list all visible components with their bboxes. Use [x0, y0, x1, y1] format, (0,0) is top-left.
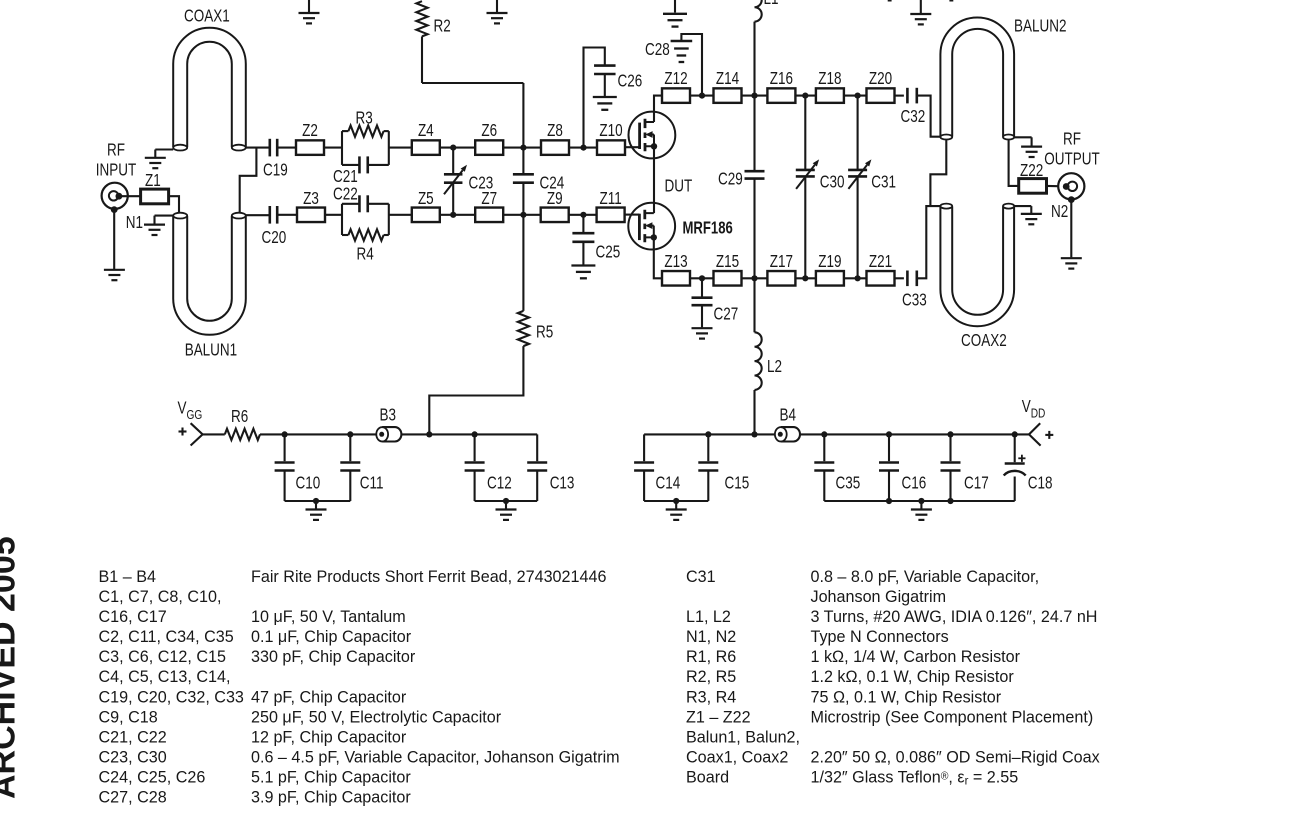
svg-text:R3, R4: R3, R4	[686, 687, 736, 706]
ground at BALUN1 left tube (N1 shield)	[144, 216, 173, 235]
node label DUT	[665, 177, 693, 196]
capacitor C28 and tap wire	[645, 34, 702, 96]
microstrip Z8	[541, 121, 569, 155]
resistor R3 (parallel branch top)	[342, 109, 389, 137]
svg-text:N1, N2: N1, N2	[686, 627, 736, 646]
svg-text:C30: C30	[820, 173, 845, 192]
microstrip Z4	[412, 121, 440, 155]
wire Z7 to Z9	[503, 214, 541, 216]
svg-text:C31: C31	[871, 173, 896, 192]
microstrip Z11	[597, 189, 625, 222]
microstrip Z10	[597, 121, 625, 155]
svg-text:C14: C14	[656, 474, 681, 493]
svg-text:2.20″ 50 Ω, 0.086″ OD Semi–Rig: 2.20″ 50 Ω, 0.086″ OD Semi–Rigid Coax	[811, 747, 1101, 766]
svg-text:R4: R4	[357, 245, 374, 264]
svg-text:Z6: Z6	[481, 121, 497, 140]
node junction C16 ground	[886, 498, 892, 504]
svg-text:BALUN1: BALUN1	[185, 341, 238, 360]
node label BALUN1	[185, 341, 238, 360]
svg-text:R6: R6	[231, 407, 248, 426]
svg-text:COAX2: COAX2	[961, 331, 1007, 350]
wire Z18 to Z20	[844, 95, 867, 97]
node junction C27 tap	[699, 275, 705, 281]
node junction C35	[821, 431, 827, 437]
svg-text:C31: C31	[686, 566, 716, 585]
svg-text:C32: C32	[901, 107, 926, 126]
microstrip Z14	[714, 69, 742, 103]
svg-text:Z4: Z4	[418, 121, 434, 140]
node junction C26 tap	[580, 145, 586, 151]
wire Z15 to Z17	[742, 277, 768, 279]
svg-text:47 pF, Chip Capacitor: 47 pF, Chip Capacitor	[251, 687, 407, 706]
node junction C11	[347, 431, 353, 437]
svg-text:C24: C24	[540, 174, 565, 193]
variable capacitor C23	[444, 148, 493, 215]
node junction C16	[886, 431, 892, 437]
node label COAX1	[184, 7, 230, 26]
node junction L1/C29 top	[751, 93, 757, 99]
svg-text:C18: C18	[1028, 474, 1053, 493]
microstrip Z20	[867, 69, 895, 103]
wire Z1 to BALUN1 left tube	[169, 196, 179, 213]
svg-text:C19, C20, C32, C33: C19, C20, C32, C33	[99, 687, 244, 706]
capacitor C15	[698, 434, 749, 501]
node junction C29/L2 bottom	[751, 275, 757, 281]
ground under C27	[692, 328, 713, 338]
connector N2	[1058, 173, 1084, 203]
microstrip Z16	[767, 69, 795, 103]
capacitor C25	[572, 215, 620, 265]
svg-text:Microstrip (See Component Plac: Microstrip (See Component Placement)	[811, 707, 1094, 726]
capacitor C32	[901, 88, 926, 127]
microstrip Z5	[412, 189, 440, 222]
capacitor C29	[718, 96, 765, 279]
wire Z20 to C32	[895, 95, 904, 97]
node junction R2/C24 top	[520, 145, 526, 151]
svg-text:C10: C10	[296, 474, 321, 493]
cut wire stub at top edge left	[888, 0, 892, 2]
svg-text:R3: R3	[356, 109, 373, 128]
wire Z19 to Z21	[844, 277, 867, 279]
node junction C15	[705, 431, 711, 437]
wire Z11 to Q2 gate	[625, 214, 640, 216]
microstrip Z2	[296, 121, 324, 155]
microstrip Z17	[767, 252, 795, 285]
wire Z16 to Z18	[795, 95, 816, 97]
capacitor C10	[275, 434, 321, 501]
coax COAX2 transmission line loop	[940, 204, 1014, 327]
svg-text:R1, R6: R1, R6	[686, 647, 736, 666]
top ground right of R2	[487, 0, 508, 23]
node junction C30 bottom	[802, 275, 808, 281]
svg-text:V: V	[1022, 397, 1031, 416]
svg-text:DUT: DUT	[665, 177, 693, 196]
wire network to Z5	[389, 214, 412, 216]
microstrip Z7	[475, 189, 503, 222]
ground at COAX2 right tube	[1014, 206, 1042, 224]
svg-text:C16, C17: C16, C17	[99, 607, 167, 626]
svg-text:OUTPUT: OUTPUT	[1044, 150, 1100, 169]
microstrip Z9	[541, 189, 569, 222]
svg-text:Z2: Z2	[302, 121, 318, 140]
svg-text:C25: C25	[596, 243, 621, 262]
C22/R4 network side wires	[342, 204, 389, 235]
node junction C31 bottom	[855, 275, 861, 281]
svg-text:3.9 pF, Chip Capacitor: 3.9 pF, Chip Capacitor	[251, 787, 411, 806]
svg-text:ARCHIVED 2005: ARCHIVED 2005	[0, 536, 23, 799]
svg-text:B3: B3	[380, 406, 397, 425]
node label N1	[126, 213, 143, 232]
node junction C23 bottom	[450, 212, 456, 218]
top ground above BALUN2	[910, 0, 931, 24]
ground under C12/C13	[496, 501, 517, 520]
svg-text:Z13: Z13	[664, 252, 687, 271]
node junction C12	[472, 431, 478, 437]
svg-text:N1: N1	[126, 213, 143, 232]
svg-text:C27: C27	[714, 305, 739, 324]
svg-text:Z11: Z11	[599, 189, 621, 208]
node junction B3/R5	[426, 431, 432, 437]
svg-text:0.1 μF, Chip Capacitor: 0.1 μF, Chip Capacitor	[251, 627, 412, 646]
svg-text:Coax1, Coax2: Coax1, Coax2	[686, 747, 788, 766]
svg-text:Z17: Z17	[770, 252, 793, 271]
top ground left of R2	[299, 0, 320, 23]
ferrite bead B4	[775, 406, 800, 442]
wire C12/C13 ground rail	[475, 500, 538, 502]
node label BALUN2	[1014, 17, 1067, 36]
microstrip Z15	[714, 252, 742, 285]
capacitor C22 (parallel branch top)	[342, 195, 389, 212]
capacitor C20	[262, 206, 287, 248]
svg-text:GG: GG	[187, 408, 203, 422]
wire step junction to BALUN1 right tube	[240, 148, 257, 213]
svg-text:Z10: Z10	[599, 121, 622, 140]
capacitor C26 and tap wire	[584, 48, 643, 148]
wire Q2 source to Z13	[654, 237, 662, 278]
wire VDD rail	[824, 433, 1029, 435]
ground under N2	[1061, 258, 1082, 268]
svg-text:BALUN2: BALUN2	[1014, 17, 1067, 36]
wire Z5 to Z7	[440, 214, 475, 216]
node junction C17	[947, 431, 953, 437]
supply VGG plus sign	[179, 428, 187, 436]
wire BALUN1 right tube to C20	[246, 214, 270, 216]
wire VGG to R6	[203, 433, 225, 435]
microstrip Z18	[816, 69, 844, 103]
svg-text:B4: B4	[780, 406, 797, 425]
svg-text:C23: C23	[469, 174, 494, 193]
capacitor C13	[527, 434, 574, 501]
wire Z9 to Z11	[569, 214, 597, 216]
wire Z14 to Z16	[742, 95, 768, 97]
svg-text:C26: C26	[618, 72, 643, 91]
capacitor C18 (polarized)	[1004, 434, 1053, 501]
capacitor C24	[513, 174, 564, 193]
svg-text:1/32″ Glass Teflon®, εr = 2.55: 1/32″ Glass Teflon®, εr = 2.55	[811, 767, 1019, 788]
svg-text:B1 – B4: B1 – B4	[99, 566, 156, 585]
supply VDD label	[1022, 397, 1046, 421]
svg-text:12 pF, Chip Capacitor: 12 pF, Chip Capacitor	[251, 727, 407, 746]
wire BALUN2 right tube to Z22	[1009, 140, 1019, 186]
wire Z21 to C33	[895, 277, 904, 279]
value label C22	[333, 185, 358, 204]
wire B3 to R5 junction	[402, 433, 430, 435]
wire C12 to C13	[475, 433, 538, 435]
cut wire stub at top edge right	[949, 0, 953, 2]
wire B4 to C35	[800, 433, 824, 435]
svg-text:C24, C25, C26: C24, C25, C26	[99, 767, 206, 786]
microstrip Z1	[141, 171, 169, 204]
wire COAX1 right tube to C19	[246, 147, 270, 149]
wire Z12 to Z14	[690, 95, 714, 97]
svg-text:C33: C33	[902, 291, 927, 310]
svg-text:Fair Rite Products Short Ferri: Fair Rite Products Short Ferrit Bead, 27…	[251, 566, 606, 585]
node junction C24/R5 bottom	[520, 212, 526, 218]
wire Z13 to Z15	[690, 277, 714, 279]
resistor R5	[518, 311, 554, 346]
ground at COAX1 left tube	[145, 150, 173, 169]
svg-text:Board: Board	[686, 767, 729, 786]
svg-text:DD: DD	[1031, 406, 1046, 420]
ground under C14/C15	[666, 501, 687, 520]
svg-text:C13: C13	[550, 474, 575, 493]
wire Z17 to Z19	[795, 277, 816, 279]
capacitor C35	[814, 434, 860, 501]
inductor L1 (cut at top edge)	[755, 0, 779, 96]
svg-text:L2: L2	[767, 357, 782, 376]
resistor R2 and feed wire	[416, 1, 523, 174]
watermark ARCHIVED 2005	[0, 536, 23, 799]
node junction C10/C11 ground	[313, 498, 319, 504]
capacitor C33	[902, 271, 927, 311]
wire R5 riser	[429, 346, 523, 434]
wire C10/C11 ground rail	[285, 500, 351, 502]
svg-text:Z12: Z12	[664, 69, 687, 88]
capacitor C12	[465, 434, 512, 501]
node junction C28 tap	[699, 93, 705, 99]
svg-text:Z22: Z22	[1020, 161, 1043, 180]
node label N2	[1051, 202, 1068, 221]
wire C10 to C11	[285, 433, 351, 435]
wire Z4 to Z6	[440, 147, 475, 149]
transistor Q1 (upper half of DUT)	[629, 112, 676, 159]
wire C24 to lower row	[522, 183, 524, 215]
wire Z10 to Q1 gate	[625, 146, 640, 148]
svg-text:MRF186: MRF186	[683, 219, 734, 238]
coax COAX1 transmission line loop	[173, 28, 246, 151]
capacitor C14	[634, 434, 680, 501]
supply VDD terminal fork	[1029, 423, 1041, 445]
wire junction to C12	[429, 433, 474, 435]
resistor R4 (parallel branch bottom)	[342, 229, 389, 264]
svg-text:C3, C6, C12, C15: C3, C6, C12, C15	[99, 647, 226, 666]
svg-text:Z18: Z18	[818, 69, 841, 88]
svg-text:Z16: Z16	[770, 69, 793, 88]
node junction C14/C15 ground	[673, 498, 679, 504]
node junction VDD ground	[918, 498, 924, 504]
svg-text:1 kΩ, 1/4 W, Carbon Resistor: 1 kΩ, 1/4 W, Carbon Resistor	[811, 647, 1021, 666]
svg-text:C21: C21	[333, 167, 358, 186]
wire C32 to BALUN2 left tube	[917, 96, 941, 137]
wire C35..C18 ground rail	[824, 500, 1014, 502]
svg-text:R2, R5: R2, R5	[686, 667, 736, 686]
svg-text:C23, C30: C23, C30	[99, 747, 167, 766]
svg-text:C21, C22: C21, C22	[99, 727, 167, 746]
wire N1 to Z1	[122, 195, 141, 197]
svg-text:C16: C16	[902, 474, 927, 493]
parts list table	[99, 566, 1101, 806]
node junction C17 ground	[947, 498, 953, 504]
svg-text:C28: C28	[645, 40, 670, 59]
wire C20 to Z3	[277, 214, 297, 216]
ground under C10/C11	[306, 501, 327, 520]
wire Z6 to Z8	[503, 147, 541, 149]
ferrite bead B3	[376, 406, 401, 442]
wire Z3 to C22/R4 network	[325, 214, 342, 216]
svg-text:Balun1, Balun2,: Balun1, Balun2,	[686, 727, 800, 746]
svg-text:C2, C11, C34, C35: C2, C11, C34, C35	[99, 627, 234, 646]
svg-text:RF: RF	[107, 141, 125, 160]
wire C14/C15 ground rail	[644, 500, 708, 502]
connector N1	[102, 183, 128, 213]
svg-text:0.6 – 4.5 pF, Variable Capacit: 0.6 – 4.5 pF, Variable Capacitor, Johans…	[251, 747, 620, 766]
balun BALUN1 transmission line loop	[173, 213, 246, 335]
microstrip Z6	[475, 121, 503, 155]
svg-text:C4, C5, C13, C14,: C4, C5, C13, C14,	[99, 667, 231, 686]
capacitor C27	[692, 278, 739, 327]
svg-text:Z5: Z5	[418, 189, 434, 208]
wire network to Z4	[389, 147, 412, 149]
svg-text:Z1 – Z22: Z1 – Z22	[686, 707, 751, 726]
microstrip Z12	[662, 69, 690, 103]
svg-text:75 Ω, 0.1 W, Chip Resistor: 75 Ω, 0.1 W, Chip Resistor	[811, 687, 1002, 706]
svg-text:1.2 kΩ, 0.1 W, Chip Resistor: 1.2 kΩ, 0.1 W, Chip Resistor	[811, 667, 1015, 686]
svg-text:COAX1: COAX1	[184, 7, 230, 26]
capacitor C19	[263, 139, 288, 180]
node label RF OUTPUT	[1044, 130, 1100, 169]
svg-text:R5: R5	[536, 323, 553, 342]
supply VGG label	[178, 399, 203, 423]
svg-text:Z1: Z1	[145, 171, 161, 190]
microstrip Z22	[1019, 161, 1047, 193]
node junction C30 top	[802, 93, 808, 99]
svg-text:INPUT: INPUT	[96, 161, 137, 180]
microstrip Z13	[662, 252, 690, 285]
ground under C26	[593, 97, 617, 110]
svg-text:C35: C35	[836, 474, 861, 493]
capacitor C16	[879, 434, 926, 501]
ground at BALUN2 right tube	[1014, 137, 1042, 157]
svg-text:Type N Connectors: Type N Connectors	[811, 627, 949, 646]
ground under VDD rail	[911, 501, 932, 520]
svg-text:Z14: Z14	[716, 69, 739, 88]
node junction C31 top	[855, 93, 861, 99]
wire Q1 source to Q2 drain	[653, 146, 655, 213]
svg-text:Z15: Z15	[716, 252, 739, 271]
supply VGG terminal fork	[191, 423, 203, 445]
svg-text:330 pF, Chip Capacitor: 330 pF, Chip Capacitor	[251, 647, 416, 666]
svg-text:10 μF, 50 V, Tantalum: 10 μF, 50 V, Tantalum	[251, 607, 406, 626]
svg-text:C11: C11	[360, 474, 384, 493]
svg-text:C12: C12	[487, 474, 512, 493]
svg-text:C19: C19	[263, 161, 288, 180]
wire N1 to ground	[113, 210, 115, 269]
svg-text:0.8 – 8.0 pF, Variable Capacit: 0.8 – 8.0 pF, Variable Capacitor,	[811, 566, 1040, 585]
svg-text:C27, C28: C27, C28	[99, 787, 167, 806]
wire C14 to B4	[644, 433, 775, 435]
supply VDD plus sign	[1045, 431, 1053, 439]
wire BALUN2 left tube to COAX2 left tube	[930, 140, 946, 206]
wire C19 to Z2	[277, 147, 296, 149]
node junction C10	[282, 431, 288, 437]
svg-text:C15: C15	[725, 474, 750, 493]
node label COAX2	[961, 331, 1007, 350]
wire Z8 to Z10	[569, 147, 597, 149]
svg-text:V: V	[178, 399, 187, 418]
svg-text:C1, C7, C8, C10,: C1, C7, C8, C10,	[99, 587, 222, 606]
svg-text:RF: RF	[1063, 130, 1081, 149]
R3/C21 network side wires	[342, 131, 389, 165]
svg-text:R2: R2	[434, 17, 451, 36]
svg-text:Johanson Gigatrim: Johanson Gigatrim	[811, 587, 947, 606]
capacitor C21 (parallel branch bottom)	[342, 156, 389, 173]
wire R6 to C10	[260, 433, 285, 435]
resistor R6	[225, 407, 260, 440]
svg-text:C17: C17	[964, 474, 989, 493]
microstrip Z21	[867, 252, 895, 285]
wire lower row to R5	[522, 215, 524, 311]
ground above C28	[663, 0, 687, 27]
svg-text:L1: L1	[764, 0, 779, 9]
wire Z22 to N2	[1047, 185, 1059, 187]
value label C21	[333, 167, 358, 186]
svg-text:5.1 pF, Chip Capacitor: 5.1 pF, Chip Capacitor	[251, 767, 411, 786]
svg-text:N2: N2	[1051, 202, 1068, 221]
svg-text:C20: C20	[262, 228, 287, 247]
balun BALUN2 transmission line loop	[940, 18, 1014, 140]
svg-text:C22: C22	[333, 185, 358, 204]
svg-text:Z3: Z3	[303, 189, 319, 208]
svg-text:Z8: Z8	[547, 121, 563, 140]
wire Q1 drain to Z12	[654, 96, 662, 122]
microstrip Z3	[297, 189, 325, 222]
svg-text:C29: C29	[718, 170, 743, 189]
wire N2 to ground	[1070, 200, 1072, 258]
wire Z2 to R3/C21 network	[324, 147, 342, 149]
microstrip Z19	[816, 252, 844, 285]
ground under N1	[104, 270, 125, 280]
svg-text:L1, L2: L1, L2	[686, 607, 731, 626]
transistor Q2 (lower half of DUT)	[628, 203, 675, 250]
svg-text:3 Turns, #20 AWG, IDIA 0.126″,: 3 Turns, #20 AWG, IDIA 0.126″, 24.7 nH	[811, 607, 1098, 626]
svg-text:Z21: Z21	[869, 252, 892, 271]
variable capacitor C30	[796, 96, 845, 279]
node junction C25 tap	[580, 212, 586, 218]
inductor L2	[755, 278, 783, 434]
wire C33 to COAX2 left tube	[917, 206, 941, 278]
node junction L2	[751, 431, 757, 437]
wire C11 to B3	[350, 433, 376, 435]
svg-text:C9, C18: C9, C18	[99, 707, 158, 726]
node junction C23 top	[450, 145, 456, 151]
svg-text:Z20: Z20	[869, 69, 892, 88]
node junction C18	[1012, 431, 1018, 437]
node junction C12/C13 ground	[503, 498, 509, 504]
node label RF INPUT	[96, 141, 137, 180]
variable capacitor C31	[848, 96, 896, 279]
svg-text:250 μF, 50 V, Electrolytic Cap: 250 μF, 50 V, Electrolytic Capacitor	[251, 707, 502, 726]
part label MRF186	[683, 219, 734, 238]
